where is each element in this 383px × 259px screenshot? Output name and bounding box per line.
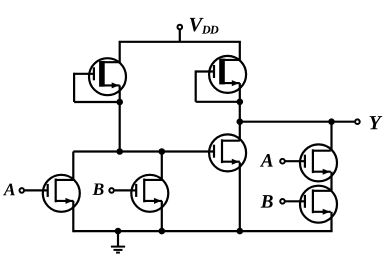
output terminal Y — [355, 119, 360, 124]
wire: M2 gate feedback left segment — [195, 70, 197, 101]
wire: output Y — [240, 121, 355, 123]
node: NOR rail / M1 source junction — [116, 148, 123, 155]
wire: B drain up to NOR rail — [161, 152, 163, 180]
wire: ground stem — [117, 231, 119, 247]
wire: VDD terminal stub — [179, 30, 181, 42]
wire: M2 source / output column down to M3 drain — [239, 83, 241, 141]
transistor depletion load M1 — [89, 58, 126, 95]
wire: A source down to ground rail — [72, 201, 74, 232]
node: M3 source junction — [237, 228, 244, 235]
transistor series transistor B (right) — [300, 186, 337, 223]
wire: M3 source down to ground rail — [239, 162, 241, 231]
wire: right B source down to ground rail — [330, 212, 332, 231]
transistor series transistor A (right) — [300, 144, 337, 181]
wire: M2 gate feedback bottom segment — [196, 101, 240, 103]
label A (right) — [260, 154, 273, 167]
wire: NOR output rail to M3 gate — [73, 150, 214, 152]
wire: M2 gate lead — [196, 70, 215, 72]
wire: M1 source down to NOR rail — [119, 85, 121, 151]
wire: M2 drain to VDD rail — [239, 42, 241, 60]
wire: input B lead — [115, 189, 137, 191]
node: M2 gate-source junction — [237, 99, 244, 106]
wire: input B lead (right) — [286, 200, 305, 202]
input terminal B (right) — [280, 199, 285, 204]
node: NOR rail / B drain junction — [159, 148, 166, 155]
label Y — [370, 116, 383, 129]
wire: M1 gate feedback left segment — [73, 73, 75, 102]
wire: M1 drain to VDD rail — [119, 42, 121, 64]
node: ground tap junction — [115, 228, 122, 235]
transistor input transistor A (left) — [43, 175, 80, 212]
label VDD — [190, 18, 204, 32]
transistor depletion load M2 — [209, 56, 246, 93]
transistor driver M3 — [209, 134, 246, 171]
label B (right) — [261, 195, 273, 207]
node: right branch junction on Y wire — [328, 118, 335, 125]
node: B source junction — [159, 228, 166, 235]
ground — [111, 247, 125, 253]
wire: ground rail — [73, 230, 332, 232]
input terminal B (left) — [109, 188, 114, 193]
wire: input A lead — [25, 189, 48, 191]
wire: right A drain up to Y wire — [330, 122, 332, 151]
node: output junction on column — [237, 118, 244, 125]
wire: VDD top rail — [119, 41, 241, 43]
wire: input A lead (right) — [286, 160, 305, 162]
transistor input transistor B (left) — [131, 175, 168, 212]
wire: B source down to ground rail — [161, 201, 163, 231]
power terminal VDD — [178, 25, 183, 30]
label B (left) — [92, 183, 103, 195]
label A (left) — [3, 184, 15, 196]
wire: M1 gate lead — [74, 73, 95, 75]
input terminal A (left) — [20, 188, 25, 193]
node: M1 gate-source junction — [116, 99, 123, 106]
wire: A drain up to NOR rail — [72, 152, 74, 180]
wire: M1 gate feedback bottom segment — [74, 101, 120, 103]
wire: right A source to right B drain — [330, 172, 332, 191]
input terminal A (right) — [280, 159, 285, 164]
